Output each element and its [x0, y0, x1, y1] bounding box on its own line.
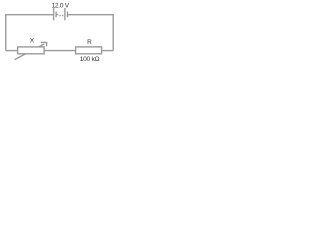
battery short plate right	[67, 12, 69, 18]
battery stub after left cell	[56, 14, 58, 16]
wire X to R	[44, 50, 76, 52]
svg-text:12.0 V: 12.0 V	[52, 2, 70, 9]
resistor X box	[18, 47, 44, 54]
resistor R box	[76, 47, 102, 54]
battery long plate right	[64, 8, 66, 20]
battery ellipsis dash 2	[62, 15, 63, 17]
battery ellipsis dash 1	[59, 15, 60, 17]
wire R to right corner	[102, 50, 114, 52]
wire top-left from corner to battery	[6, 15, 54, 51]
wire top-right from battery to right corner	[68, 15, 114, 51]
svg-text:R: R	[87, 39, 92, 46]
resistor X arrowhead	[41, 42, 47, 46]
battery long plate left	[53, 8, 55, 20]
svg-text:100 kΩ: 100 kΩ	[80, 56, 100, 63]
battery short plate left	[55, 12, 57, 18]
wire bottom-left to X	[6, 50, 18, 52]
resistor X arrow diagonal	[15, 44, 45, 60]
